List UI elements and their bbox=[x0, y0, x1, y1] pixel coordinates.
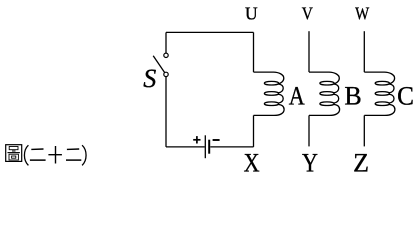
svg-text:Z: Z bbox=[353, 149, 369, 178]
svg-text:A: A bbox=[289, 83, 305, 111]
svg-text:W: W bbox=[355, 5, 370, 24]
svg-text:S: S bbox=[143, 64, 156, 93]
svg-text:U: U bbox=[245, 4, 258, 24]
svg-text:V: V bbox=[302, 4, 313, 24]
svg-text:Y: Y bbox=[302, 150, 318, 178]
svg-text:B: B bbox=[344, 81, 361, 110]
svg-text:C: C bbox=[397, 81, 414, 110]
svg-text:X: X bbox=[244, 150, 260, 178]
